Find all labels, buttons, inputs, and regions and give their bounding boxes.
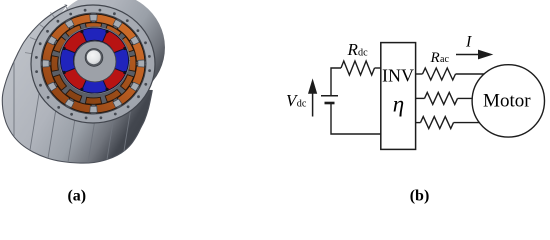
- svg-text:R: R: [347, 40, 359, 59]
- motor front face stator housing: [31, 5, 155, 123]
- wire INV to Rac phase A: [416, 73, 423, 75]
- shaft bore: [85, 49, 103, 67]
- motor M: [472, 65, 544, 137]
- svg-text:dc: dc: [358, 48, 368, 59]
- wire Rdc to INV: [375, 67, 382, 69]
- battery Vdc long plate: [321, 95, 338, 97]
- svg-text:INV: INV: [382, 65, 414, 85]
- svg-text:(a): (a): [67, 188, 86, 205]
- inverter box INV: [381, 43, 416, 150]
- resistor Rac phase A: [423, 68, 456, 80]
- wire Rac B to motor: [458, 97, 475, 99]
- wire battery to bottom node: [331, 103, 381, 134]
- rotor magnet ring: [61, 28, 129, 93]
- rotor hub disc: [74, 41, 116, 82]
- current arrow I: [456, 54, 480, 56]
- drum rim seam ticks: [25, 4, 68, 54]
- wire INV to Rac phase C: [416, 122, 421, 124]
- air gap ring: [59, 27, 130, 95]
- Vdc polarity arrow: [312, 90, 314, 117]
- shaft bore highlight: [87, 50, 101, 64]
- wire Rac C to motor: [454, 122, 482, 124]
- copper coil blocks: [42, 14, 145, 113]
- resistor Rdc: [341, 61, 375, 75]
- magnet retention clips: [63, 30, 127, 91]
- svg-text:Motor: Motor: [483, 90, 531, 111]
- wire INV to Rac phase B: [416, 97, 425, 99]
- resistor Rac phase C: [421, 117, 454, 129]
- battery Vdc short plate: [325, 102, 335, 105]
- svg-text:(b): (b): [410, 188, 430, 205]
- motor cylinder body: [2, 0, 165, 163]
- svg-text:I: I: [465, 34, 472, 51]
- stator face outer rim: [31, 5, 155, 123]
- drum side surface: [2, 0, 165, 163]
- resistor Rac phase B: [425, 92, 458, 104]
- svg-text:ac: ac: [440, 54, 449, 65]
- svg-text:R: R: [430, 50, 440, 66]
- wire Rac A to motor: [456, 73, 487, 75]
- drum silhouette outline: [2, 5, 152, 163]
- svg-text:dc: dc: [297, 98, 307, 109]
- rim bolt dots: [35, 9, 151, 120]
- stator lamination ring: [41, 13, 146, 114]
- drum facet seams: [14, 62, 130, 163]
- wire top-left from battery to Rdc: [331, 68, 341, 96]
- svg-text:η: η: [393, 92, 404, 117]
